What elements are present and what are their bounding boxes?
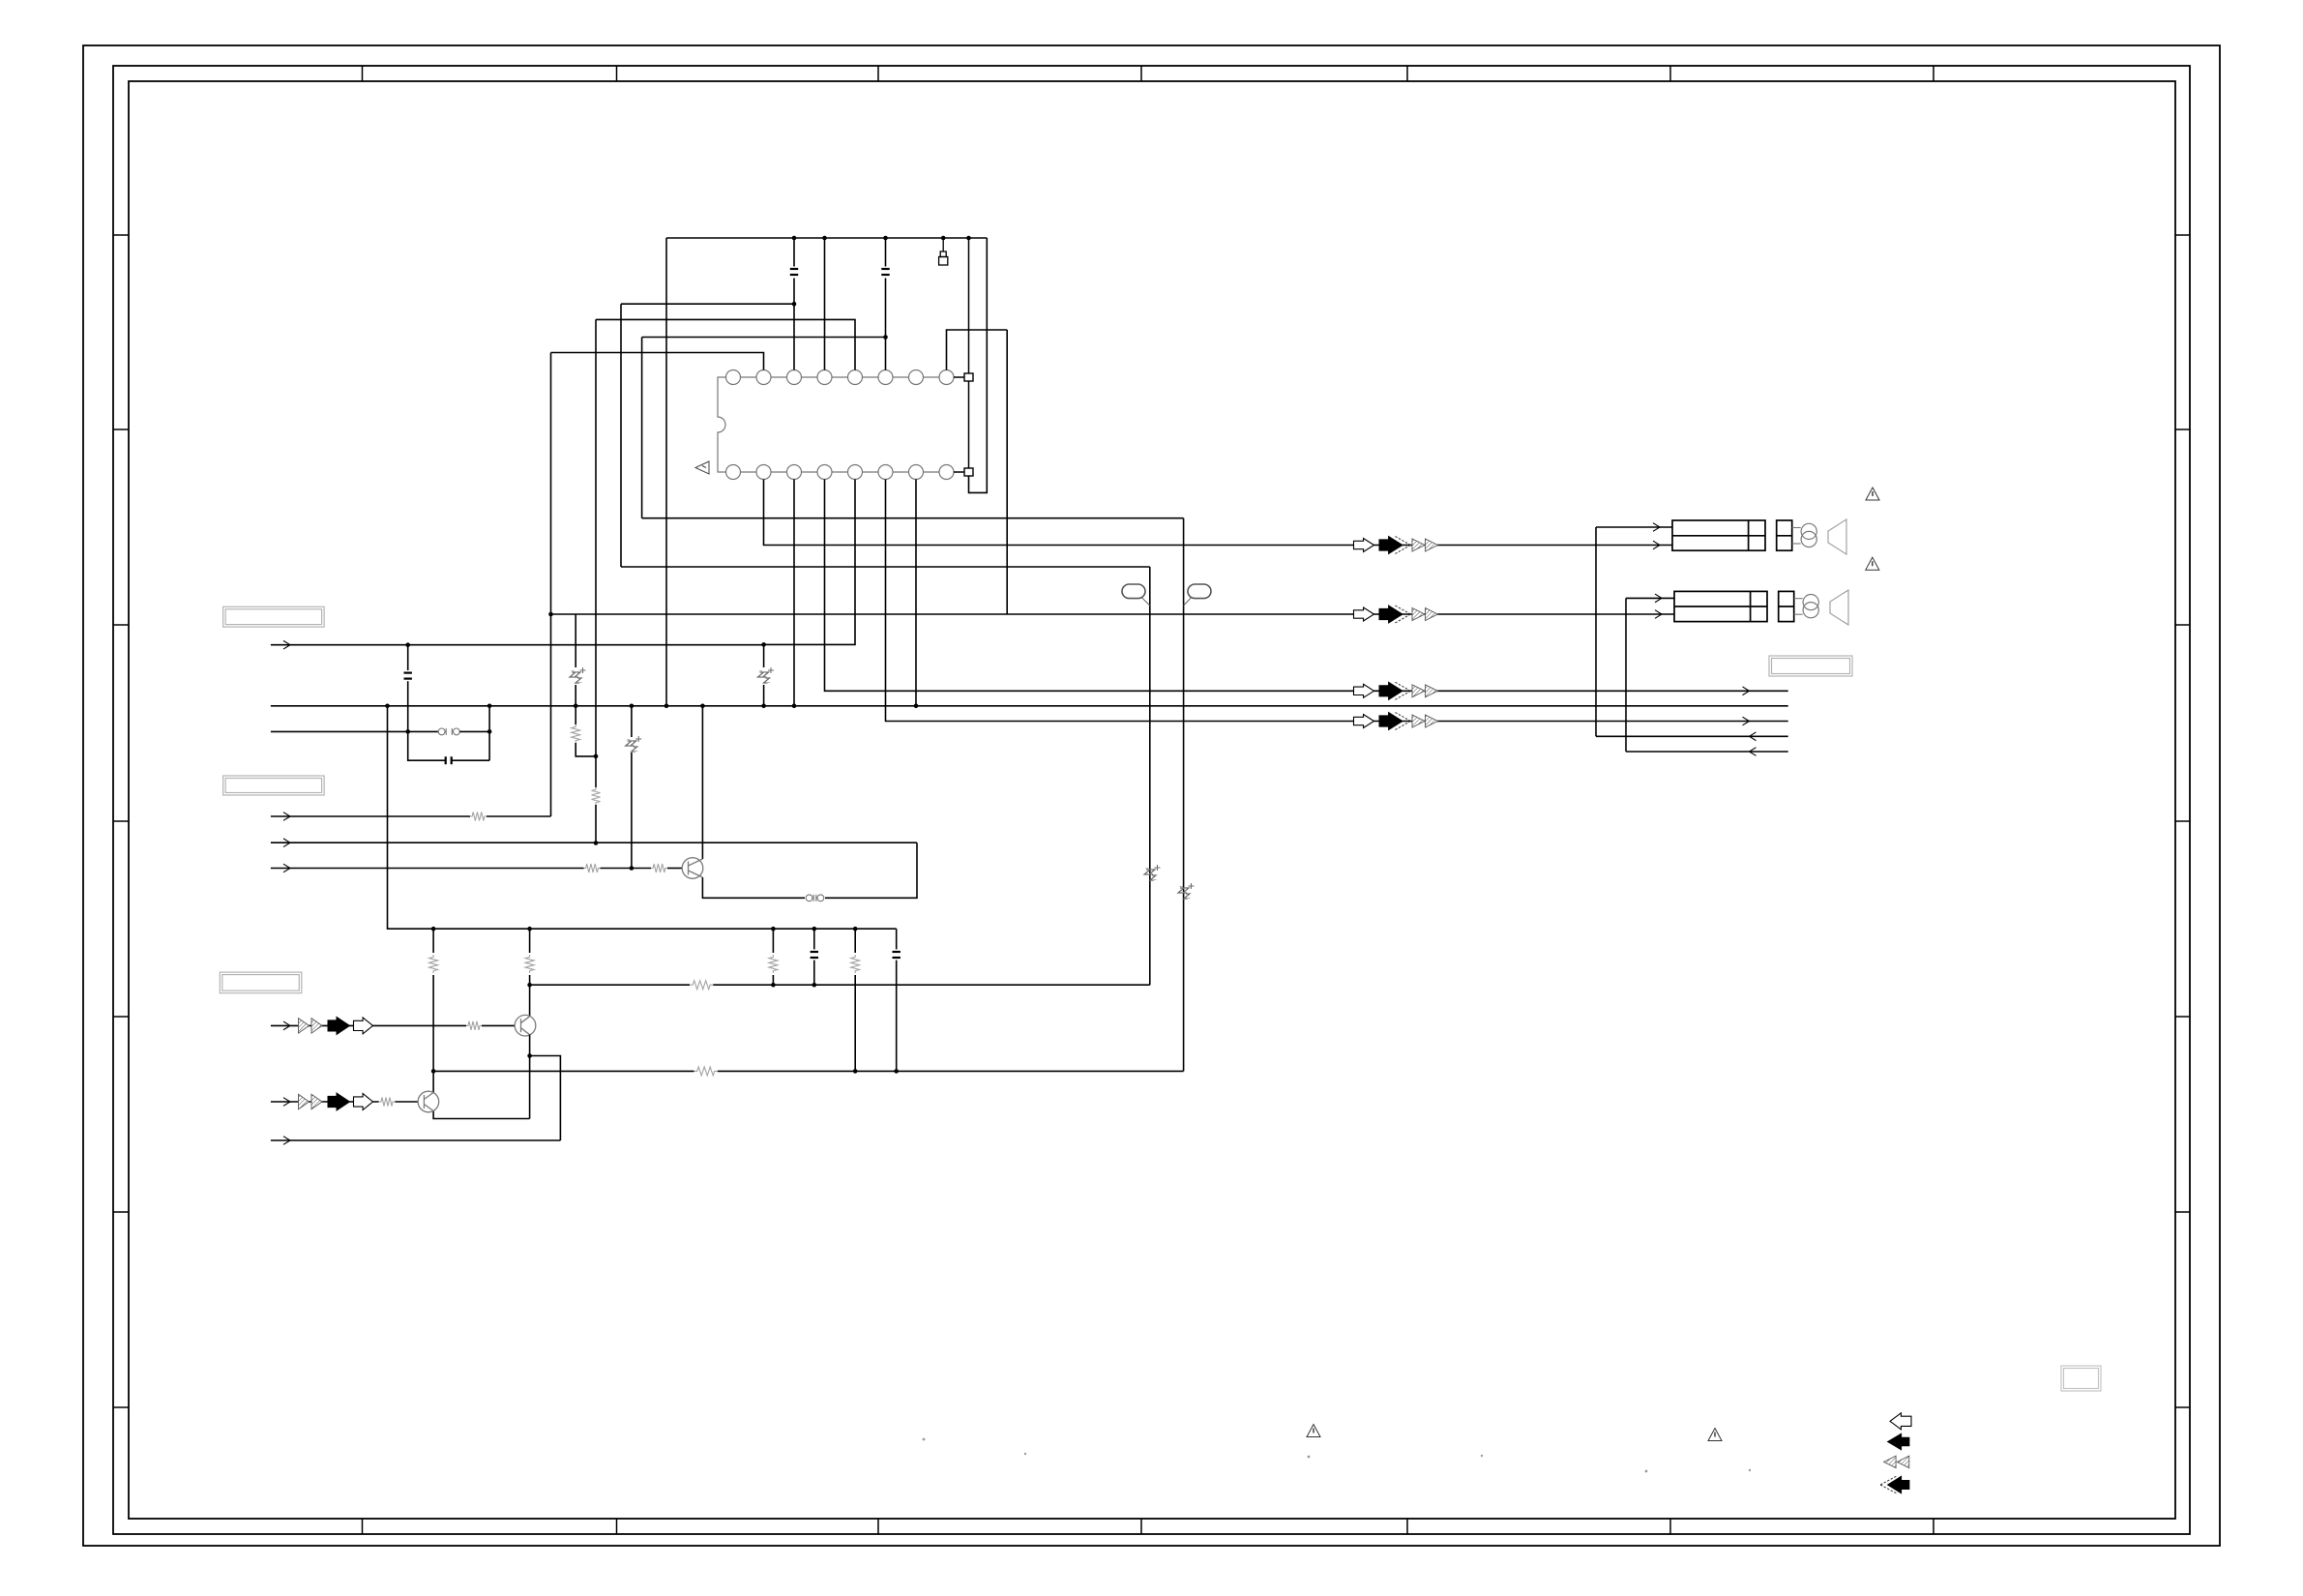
node: y1018 / R8 bbox=[771, 983, 776, 988]
arrowhead input8 bbox=[283, 1098, 290, 1107]
contact CN4 on loop bbox=[806, 895, 824, 901]
signal arrow (filled) y635 bbox=[1379, 606, 1402, 623]
label box LB1 bbox=[223, 606, 325, 627]
wire: main mid bus bbox=[271, 705, 1788, 707]
wire: audio mute line (train3) bbox=[825, 480, 1788, 692]
wire: R12 to Q3 base bbox=[395, 1101, 418, 1103]
filter block FL1 (R channel) bbox=[1672, 520, 1765, 550]
input8 open arrow bbox=[354, 1094, 373, 1110]
resistor R6 bbox=[690, 981, 713, 990]
wire: input line 8 bbox=[271, 1101, 379, 1103]
wire: R3 to Q1 base bbox=[667, 868, 682, 870]
signal arrow (open) y635 bbox=[1354, 607, 1374, 621]
wire: input4 to rail x569 bbox=[487, 815, 551, 817]
wire: node to CE3 bbox=[763, 644, 765, 667]
wire: CE3 to mid bus bbox=[763, 685, 765, 706]
capacitor CE1 (gray) bbox=[570, 667, 586, 683]
label box LB4 (right) bbox=[1769, 656, 1852, 676]
U1 pin 3 (top) bbox=[787, 370, 802, 385]
transistor Q1 bbox=[682, 858, 703, 879]
wire: emitter jog bbox=[530, 1056, 561, 1141]
wire: R4 top lead bbox=[432, 929, 434, 953]
wire: loop to Q1 emitter bbox=[702, 877, 805, 898]
wire: mid bus to Q1 collector bbox=[701, 706, 703, 859]
resistor R3 bbox=[651, 864, 667, 872]
wire: pin8 top L bbox=[947, 330, 1008, 370]
U1 pin 7 (top) bbox=[909, 370, 924, 385]
wire: left rail x664 bbox=[641, 338, 643, 518]
capacitor CE4 (gray) on bead1 net bbox=[1144, 865, 1161, 880]
node: mid bus / x506 bbox=[487, 704, 492, 709]
U1 pin 2 (top) bbox=[756, 370, 771, 385]
node: y960 / C5 bbox=[812, 927, 817, 931]
resistor R2 bbox=[584, 864, 601, 872]
node: bus / pin4 bbox=[822, 236, 827, 241]
arrowhead input4 bbox=[283, 813, 290, 821]
node: bus / C2 bbox=[883, 236, 888, 241]
wire: pin4 to bus bbox=[824, 238, 826, 370]
wire: C3 bottom lead bbox=[407, 681, 409, 731]
node: rail x569 / train2 bbox=[548, 612, 553, 617]
wire: C5 top lead bbox=[813, 929, 815, 949]
arrowhead R-ch upper bbox=[1653, 523, 1660, 532]
input8 hatched arrow A bbox=[299, 1094, 310, 1109]
node: mid bus / x400 bbox=[385, 704, 390, 709]
wire: R4 to Q3 collector bbox=[432, 975, 434, 1093]
wire: mid bus to R7 top bbox=[575, 706, 576, 724]
warning triangle W3 bbox=[1307, 1425, 1320, 1437]
wire: rail x1041 to audio L2 line bbox=[1006, 330, 1008, 614]
U1 pin 13 (bottom) bbox=[817, 465, 832, 480]
terminal block TB1 (R channel) bbox=[1777, 520, 1792, 550]
U1 pin 10 (bottom) bbox=[909, 465, 924, 480]
capacitor C5 bbox=[811, 952, 818, 958]
wire: L-ch upper input bbox=[1626, 597, 1674, 599]
node: input3 / x506 bbox=[487, 729, 492, 734]
wire: audio R line (train1) bbox=[764, 480, 1673, 546]
wire: input5 loop right bbox=[825, 842, 917, 898]
legend hatched arrow A bbox=[1884, 1456, 1897, 1468]
wire: TB1 to L1 bbox=[1792, 527, 1801, 529]
wire: R9 top lead bbox=[854, 929, 856, 953]
wire: y777 return line bbox=[1626, 751, 1788, 753]
wire: top-bus left drop to mid bus bbox=[665, 238, 667, 706]
node: input6 / CE2 bbox=[630, 866, 635, 871]
signal arrow (filled) y745 bbox=[1379, 713, 1402, 730]
signal arrow (open) y714 bbox=[1354, 684, 1374, 697]
U1 pin 4 (top) bbox=[817, 370, 832, 385]
node: y960 / R8 bbox=[771, 927, 776, 931]
arrowhead y777 (left) bbox=[1750, 748, 1757, 756]
wire: R11 to Q2 base bbox=[482, 1024, 515, 1026]
wire: left rail x642 bbox=[620, 304, 622, 567]
wire: input line 5 bbox=[271, 842, 917, 843]
wire: C6 top lead bbox=[896, 929, 898, 949]
wire: R-ch upper input bbox=[1596, 526, 1672, 528]
node: Q2 emitter / jog bbox=[527, 1053, 532, 1058]
node: input1 end / pin12 L bbox=[761, 642, 766, 647]
legend filled arrow 2 bbox=[1888, 1476, 1909, 1493]
filter block FL2 (L channel) bbox=[1674, 591, 1767, 621]
wire: V+ top bus bbox=[666, 237, 987, 239]
signal arrow (hatched B) y745 bbox=[1426, 715, 1438, 727]
wire: y1114 feedback line bbox=[433, 1070, 694, 1072]
arrowhead L-ch upper bbox=[1655, 594, 1662, 603]
wire: C3 top lead bbox=[407, 645, 409, 670]
wire: C5 bottom lead bbox=[813, 961, 815, 986]
capacitor C3 bbox=[404, 673, 412, 679]
wire: input line 9 bbox=[271, 1139, 561, 1141]
node: rail x616 / R7 bbox=[594, 754, 599, 759]
wire: pad to pad bbox=[968, 381, 970, 468]
node: mid bus / pin14 drop bbox=[792, 704, 797, 709]
signal arrow (hatched A) y745 bbox=[1412, 715, 1425, 727]
node: Q2 collector / y1018 bbox=[527, 983, 532, 988]
node: mid bus / x689 bbox=[664, 704, 669, 709]
connector pin J1 stub bbox=[939, 238, 948, 265]
signal arrow (hatched B) y714 bbox=[1426, 685, 1438, 697]
node: bus / J1 bbox=[941, 236, 946, 241]
wire: R-ch feedback vertical bbox=[1595, 527, 1597, 736]
transistor Q3 bbox=[418, 1091, 439, 1112]
resistor R10 bbox=[694, 1067, 718, 1076]
wire: bead2 net horizontal bbox=[642, 517, 1184, 519]
wire: bead2 net vertical bbox=[1183, 518, 1185, 1072]
legend hatched arrow B bbox=[1897, 1456, 1909, 1468]
wire: C2 to pin6 bbox=[885, 279, 887, 370]
U1 pin 1 (top) bbox=[726, 370, 741, 385]
signal arrow (hatched B) y635 bbox=[1426, 608, 1438, 621]
resistor R5 bbox=[525, 955, 534, 973]
arrowhead input6 bbox=[283, 864, 290, 872]
wire: Q3 emitter loop bbox=[433, 1111, 529, 1119]
node: mid bus / CE1 bbox=[574, 704, 578, 709]
label box LB2 bbox=[223, 776, 325, 795]
arrowhead into CN L-ch bbox=[1655, 610, 1662, 619]
input8 hatched arrow B bbox=[311, 1094, 322, 1109]
node: mid bus / pin10 drop bbox=[914, 704, 919, 709]
wire: pin2 top L bbox=[551, 353, 764, 370]
speaker SP1 bbox=[1828, 519, 1846, 554]
coil L2 circles bbox=[1803, 595, 1818, 618]
capacitor C6 bbox=[893, 952, 901, 958]
wire: R8 bottom lead bbox=[772, 975, 774, 985]
label box LB3 bbox=[220, 972, 301, 993]
wire: CE2 to input6 bbox=[631, 753, 633, 869]
wire: pin8 pad jog to bus bbox=[969, 238, 988, 492]
signal arrow (filled) y714 bbox=[1379, 682, 1402, 699]
U1 pin 9 pad (top right) bbox=[964, 373, 973, 381]
U1 pin 14 (bottom) bbox=[787, 465, 802, 480]
op-amp U1 body bbox=[718, 377, 939, 472]
legend open chevron 2 bbox=[1880, 1476, 1897, 1493]
warning triangle W1 bbox=[1866, 488, 1879, 500]
wire: TB2 to L2 lower bbox=[1794, 613, 1803, 615]
wire: left rail x616 lower bbox=[595, 805, 597, 843]
wire: left rail to pin6 node bbox=[642, 337, 886, 339]
node: y1114 / R9 bbox=[853, 1069, 858, 1074]
node: y960 / R9 bbox=[853, 927, 858, 931]
capacitor CE3 (gray) bbox=[758, 667, 775, 683]
resistor R11 bbox=[466, 1021, 482, 1030]
wire: R5 top lead bbox=[529, 929, 531, 953]
wire: left rail x616 upper bbox=[595, 319, 597, 787]
U1 pin 8 pad (bottom right) bbox=[964, 468, 973, 476]
signal arrow (open) y745 bbox=[1354, 715, 1374, 728]
arrowhead input1 bbox=[283, 640, 290, 649]
wire: left rail to pin3 node bbox=[621, 303, 794, 305]
wire: audio sense line (train4) bbox=[886, 480, 1788, 722]
input7 filled arrow bbox=[328, 1017, 350, 1034]
tiny text specks bbox=[923, 1438, 1752, 1473]
label box LB5 (corner) bbox=[2061, 1366, 2101, 1391]
U1 pin 16 (bottom) bbox=[726, 465, 741, 480]
wire: R2 to R3 bbox=[601, 868, 652, 870]
input7 open arrow bbox=[354, 1018, 373, 1034]
wire: mid bus to CE2 bbox=[631, 706, 633, 737]
wire: C1 to pin3 bbox=[793, 279, 795, 370]
wire: R5 to node bbox=[529, 975, 531, 985]
transistor Q2 bbox=[515, 1015, 536, 1036]
warning triangle W4 bbox=[1708, 1429, 1722, 1441]
resistor R12 bbox=[379, 1098, 395, 1107]
signal arrow (hatched B) y563 bbox=[1426, 539, 1438, 551]
wire: train2 to CE1 bbox=[575, 614, 576, 667]
wire: y761 return line bbox=[1596, 735, 1788, 737]
input7 hatched arrow A bbox=[299, 1019, 310, 1034]
wire: y1114 cont. bbox=[718, 1070, 1184, 1072]
wire: C4 loop right bbox=[452, 759, 489, 761]
wire: R7 jog to rail x616 bbox=[576, 743, 596, 756]
node: bus / C1 bbox=[792, 236, 797, 241]
arrowhead train4 bbox=[1743, 717, 1750, 725]
wire: input line 6 bbox=[271, 868, 584, 870]
node: C1 wire / y314 line bbox=[792, 302, 797, 307]
wire: x400 drop bbox=[388, 706, 897, 929]
wire: TB1 to L1 lower bbox=[1792, 543, 1801, 545]
arrowhead input7 bbox=[283, 1021, 290, 1030]
wire: y1018 cont. bbox=[713, 984, 1150, 986]
arrowhead into CN R-ch bbox=[1653, 541, 1660, 549]
capacitor C4 bbox=[446, 756, 452, 764]
wire: Q2 emitter bbox=[529, 1035, 531, 1119]
signal arrow (hatched A) y635 bbox=[1412, 608, 1425, 621]
arrowhead input9 bbox=[283, 1137, 290, 1145]
wire: L-ch feedback vertical bbox=[1625, 598, 1627, 752]
wire: C6 bottom lead bbox=[896, 961, 898, 1072]
U1 pin 9 (bottom) bbox=[939, 465, 954, 480]
coil L1 circles bbox=[1801, 523, 1816, 547]
U1 pin 11 (bottom) bbox=[878, 465, 893, 480]
wire: audio L line (train2) bbox=[551, 613, 1675, 615]
ferrite bead FB2 bbox=[1184, 584, 1211, 606]
U1 orientation triangle bbox=[695, 461, 709, 474]
legend filled arrow bbox=[1888, 1433, 1909, 1449]
resistor R9 bbox=[851, 955, 860, 973]
arrowhead train3 bbox=[1743, 687, 1750, 695]
resistor R4 bbox=[429, 955, 438, 973]
speaker SP2 bbox=[1830, 590, 1848, 625]
node: y1018 / C5 bbox=[812, 983, 817, 988]
capacitor CE2 (gray) bbox=[626, 736, 642, 752]
node: C2 wire / y352 line bbox=[883, 335, 888, 340]
resistor R1 bbox=[470, 813, 487, 821]
wire: TB2 to L2 bbox=[1794, 598, 1803, 600]
wire: bead1 net horizontal bbox=[621, 566, 1150, 568]
node: bus / pad chain bbox=[966, 236, 971, 241]
ferrite bead FB1 bbox=[1122, 584, 1150, 606]
wire: R9 bottom lead bbox=[854, 975, 856, 1071]
signal arrow (hatched A) y563 bbox=[1412, 539, 1425, 551]
capacitor C1 bbox=[790, 269, 798, 275]
wire: input3 cont. bbox=[459, 730, 489, 732]
wire: input line 7 bbox=[271, 1024, 466, 1026]
wire: left rail x569 bbox=[550, 353, 552, 817]
node: y960 / R4 bbox=[431, 927, 436, 931]
node: mid bus / Q1 collector bbox=[700, 704, 705, 709]
capacitor C2 bbox=[881, 269, 889, 275]
signal arrow (filled) y563 bbox=[1379, 537, 1402, 554]
node: input3 / C3 bbox=[405, 729, 410, 734]
wire: input line 4 bbox=[271, 815, 470, 817]
terminal block TB2 (L channel) bbox=[1779, 591, 1794, 621]
U1 right-side pad link bbox=[954, 376, 964, 378]
wire: pin14 drop bbox=[793, 480, 795, 706]
node: y1114 / C6 bbox=[894, 1069, 899, 1074]
wire: C4 loop bbox=[408, 731, 446, 760]
contact CN3 on input3 bbox=[438, 728, 459, 735]
capacitor CE5 (gray) on bead2 net bbox=[1178, 883, 1195, 899]
arrowhead input5 bbox=[283, 839, 290, 847]
resistor R7 bbox=[572, 724, 580, 743]
legend open arrow bbox=[1890, 1413, 1911, 1430]
wire: x506 bus tap bbox=[488, 706, 490, 760]
wire: bus to C2 bbox=[885, 238, 887, 267]
wire: pin5 top L bbox=[596, 319, 855, 369]
node: y960 / R5 bbox=[527, 927, 532, 931]
node: R4 net / y1114 line bbox=[431, 1069, 436, 1074]
U1 pin 5 (top) bbox=[848, 370, 863, 385]
arrowhead y761 (left) bbox=[1750, 732, 1757, 741]
node: mid bus / CE3 bbox=[761, 704, 766, 709]
wire: Q2 collector bbox=[529, 985, 531, 1016]
warning triangle W2 bbox=[1866, 557, 1879, 570]
wire: bead1 net vertical bbox=[1149, 567, 1151, 985]
input8 filled arrow bbox=[328, 1093, 350, 1110]
U1 pin 12 (bottom) bbox=[848, 465, 863, 480]
resistor R8 bbox=[769, 955, 778, 973]
wire: pin10 drop bbox=[915, 480, 917, 706]
signal arrow (open) y563 bbox=[1354, 539, 1374, 552]
node: input1 / C3 bbox=[405, 642, 410, 647]
U1 pin 8 (top) bbox=[939, 370, 954, 385]
wire: pin12 drop L bbox=[764, 480, 855, 645]
U1 pin 6 (top) bbox=[878, 370, 893, 385]
wire: pin9 pad chain to bus bbox=[968, 238, 970, 373]
wire: R8 top lead bbox=[772, 929, 774, 953]
wire: CE1 to mid bus bbox=[575, 685, 576, 706]
node: rail x616 / input5 bbox=[594, 841, 599, 845]
wire: input line 3 bbox=[271, 730, 438, 732]
signal arrow (hatched A) y714 bbox=[1412, 685, 1425, 697]
wire: input line 1 bbox=[271, 644, 764, 646]
U1 pin 15 (bottom) bbox=[756, 465, 771, 480]
node: mid bus / CE2 bbox=[630, 704, 635, 709]
resistor R13 bbox=[592, 787, 601, 805]
wire: bus to C1 bbox=[793, 238, 795, 267]
wire: y1018 feedback line bbox=[530, 984, 690, 986]
input7 hatched arrow B bbox=[311, 1019, 322, 1034]
